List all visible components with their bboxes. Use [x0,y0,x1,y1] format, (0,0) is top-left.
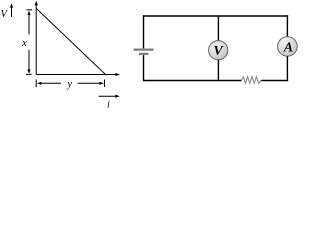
wire: middle branch lower (from voltmeter) [217,60,219,81]
wire: right lower (from ammeter) [286,56,288,81]
small up arrow beside V label [11,7,13,18]
wire: right upper (to ammeter) [286,15,288,37]
y dimension left arrow [42,82,62,84]
i axis [36,74,116,76]
wire: left lower (from battery) [143,55,145,81]
svg-text:x: x [21,38,27,49]
load line (diagonal) [36,9,105,75]
x dimension top tick [26,9,32,11]
wire: bottom right (from resistor) [261,80,288,82]
x dimension upper arrow [28,15,30,35]
voltmeter V [209,41,228,60]
wire: top [143,15,288,17]
battery cell: short plate [139,53,148,55]
svg-text:A: A [283,41,293,56]
resistor R [241,77,261,84]
svg-text:i: i [107,100,110,111]
svg-text:V: V [1,9,9,20]
x dimension lower arrow [28,50,30,70]
y dimension right arrow [78,82,100,84]
wire: middle branch upper (to voltmeter) [217,16,219,41]
x dimension bottom tick [26,73,32,75]
y dimension left tick [35,80,37,88]
svg-text:y: y [66,79,72,90]
battery cell: long plate [134,48,154,50]
i axis arrow (small) [99,95,116,97]
wire: left upper (to battery) [143,15,145,48]
wire: bottom left (to resistor) [144,80,242,82]
y dimension right tick [104,80,106,88]
ammeter A [278,37,298,57]
V axis [35,6,37,75]
